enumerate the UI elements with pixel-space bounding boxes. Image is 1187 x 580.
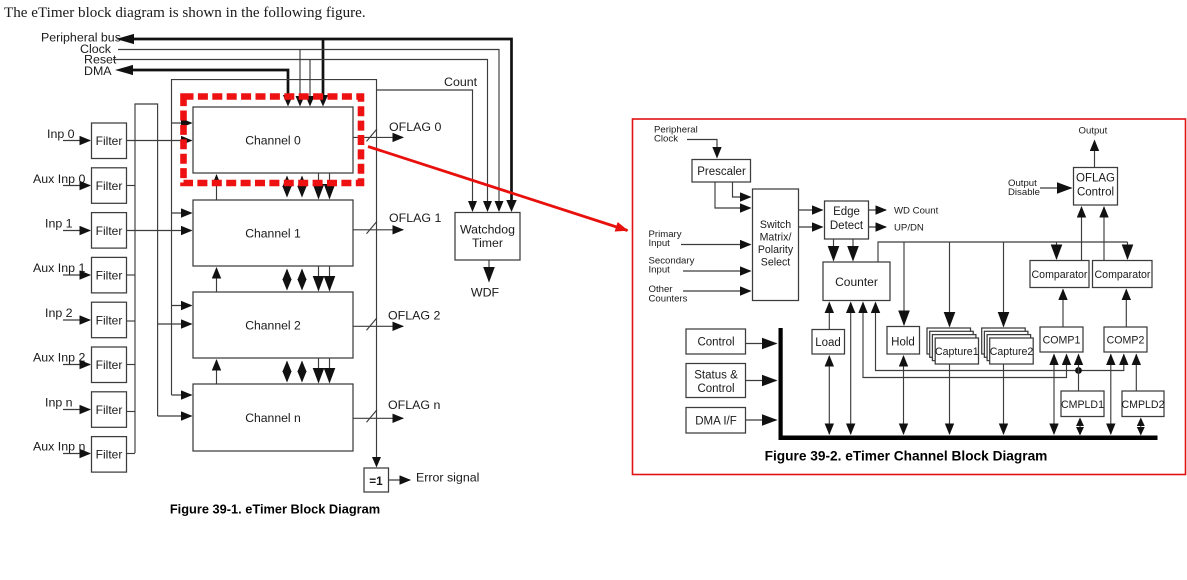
arrow Peripheral bus into Watchdog Timer bbox=[506, 200, 516, 212]
wire counter output line A (to COMP2/CMPLD1) bbox=[876, 304, 1124, 371]
svg-text:Switch: Switch bbox=[760, 219, 791, 231]
svg-text:Comparator: Comparator bbox=[1032, 269, 1088, 281]
svg-text:WDF: WDF bbox=[471, 286, 500, 300]
block Comparator 2 bbox=[1093, 261, 1153, 288]
wire CMPLD1 to bus bar (double) bbox=[1079, 419, 1081, 435]
wire Error signal output bbox=[389, 479, 411, 481]
wire Comparator1 to OFLAG Control bbox=[1081, 207, 1083, 261]
svg-text:Inp 2: Inp 2 bbox=[45, 306, 73, 320]
svg-text:Counters: Counters bbox=[649, 294, 688, 305]
wire filter F7 to bus bbox=[127, 411, 136, 413]
wire OFLAG n output bbox=[353, 417, 403, 419]
svg-text:Counter: Counter bbox=[835, 275, 878, 289]
svg-text:OFLAG: OFLAG bbox=[1076, 173, 1115, 185]
filter F7 bbox=[92, 392, 127, 428]
block Channel 2 bbox=[193, 292, 353, 358]
svg-text:Comparator: Comparator bbox=[1095, 269, 1151, 281]
svg-text:OFLAG 0: OFLAG 0 bbox=[389, 120, 441, 134]
svg-text:Channel 0: Channel 0 bbox=[245, 134, 301, 148]
wire Reset bbox=[113, 60, 488, 204]
wire filter F2 to bus bbox=[127, 185, 136, 187]
wire filter F8 to bus bbox=[127, 453, 136, 455]
block Hold bbox=[887, 327, 920, 355]
wire CMPLD2 to COMP2 bbox=[1135, 355, 1137, 392]
wire COMP2 to bus bar (double) bbox=[1110, 355, 1112, 435]
wire Reset branch into Channel 0 bbox=[309, 60, 311, 98]
svg-text:Figure 39-1. eTimer Block Diag: Figure 39-1. eTimer Block Diagram bbox=[170, 502, 380, 517]
svg-text:Matrix/: Matrix/ bbox=[760, 232, 792, 244]
wire Comparator2 to OFLAG Control bbox=[1103, 207, 1105, 261]
block Channel 0 bbox=[193, 107, 353, 173]
wire WD Count output bbox=[869, 209, 887, 211]
svg-text:Status &: Status & bbox=[694, 370, 738, 382]
wire counter output line B (to COMP1) bbox=[863, 304, 1067, 378]
capture stack Capture1 bbox=[927, 328, 971, 354]
block CMPLD1 bbox=[1061, 391, 1104, 417]
svg-text:Detect: Detect bbox=[830, 220, 864, 232]
wire Capture1 to bus bar bbox=[949, 364, 951, 434]
filter F5 bbox=[92, 302, 127, 338]
filter F8 bbox=[92, 437, 127, 473]
svg-text:Capture2: Capture2 bbox=[990, 346, 1034, 358]
block Channel 1 bbox=[193, 200, 353, 266]
filter F2 bbox=[92, 168, 127, 204]
wire Peripheral bus (thick, left arrowhead) bbox=[116, 34, 134, 44]
arrow loop into =1 box bbox=[372, 457, 381, 468]
wire Inp 0 into filter bbox=[63, 140, 90, 142]
wire Aux Inp 0 into filter bbox=[63, 185, 90, 187]
filter F4 bbox=[92, 257, 127, 293]
block Counter bbox=[823, 262, 890, 301]
svg-text:DMA I/F: DMA I/F bbox=[695, 416, 737, 428]
svg-text:Filter: Filter bbox=[96, 224, 123, 238]
svg-text:Edge: Edge bbox=[833, 206, 860, 218]
svg-text:Filter: Filter bbox=[96, 448, 123, 462]
wire COMP1 to bus bar (double) bbox=[1053, 355, 1055, 435]
red dashed highlight box around Channel 0 bbox=[184, 97, 362, 184]
svg-text:Disable: Disable bbox=[1008, 187, 1040, 198]
block CMPLD2 bbox=[1122, 391, 1164, 417]
svg-text:The eTimer block diagram is sh: The eTimer block diagram is shown in the… bbox=[4, 5, 366, 21]
svg-text:Input: Input bbox=[649, 265, 671, 276]
wire Other Counters into Switch Matrix bbox=[683, 290, 751, 292]
block COMP1 bbox=[1040, 327, 1083, 352]
wire OFLAG 1 output bbox=[353, 229, 403, 231]
svg-text:Capture1: Capture1 bbox=[935, 346, 979, 358]
block DMA I/F bbox=[686, 408, 746, 434]
svg-text:Aux Inp 0: Aux Inp 0 bbox=[33, 172, 85, 186]
svg-text:Control: Control bbox=[697, 383, 734, 395]
block Edge Detect bbox=[825, 201, 869, 239]
svg-text:Count: Count bbox=[444, 75, 478, 89]
wire bus to Channel 0 input 1 (from loop) bbox=[172, 122, 192, 124]
svg-text:Filter: Filter bbox=[96, 179, 123, 193]
svg-text:Figure 39-2. eTimer Channel Bl: Figure 39-2. eTimer Channel Block Diagra… bbox=[765, 449, 1048, 464]
svg-text:Load: Load bbox=[815, 337, 841, 349]
svg-text:OFLAG 2: OFLAG 2 bbox=[388, 309, 440, 323]
wire filter F5 to bus bbox=[127, 320, 136, 322]
wire Output Disable into OFLAG Control bbox=[1040, 187, 1072, 189]
svg-text:OFLAG 1: OFLAG 1 bbox=[389, 211, 441, 225]
wire feedback loop (top/left/right) bbox=[172, 80, 377, 459]
svg-text:Filter: Filter bbox=[96, 403, 123, 417]
wire Load to bus bar (double) bbox=[828, 356, 830, 434]
svg-text:Watchdog: Watchdog bbox=[460, 223, 515, 237]
arrows between Channel 1 and Channel 2 bbox=[216, 268, 218, 292]
wire Switch Matrix to Edge Detect 1 bbox=[799, 209, 823, 211]
svg-text:Filter: Filter bbox=[96, 134, 123, 148]
block Switch Matrix / Polarity Select bbox=[753, 189, 799, 301]
svg-text:Inp n: Inp n bbox=[45, 396, 73, 410]
svg-text:Timer: Timer bbox=[472, 236, 503, 250]
svg-text:Error signal: Error signal bbox=[416, 471, 479, 485]
svg-text:Channel 2: Channel 2 bbox=[245, 319, 301, 333]
wire Inp 1 into filter bbox=[63, 230, 90, 232]
red arrow from Channel 0 to Figure 39-2 bbox=[368, 147, 628, 231]
svg-text:Aux Inp 1: Aux Inp 1 bbox=[33, 261, 85, 275]
wire loop to Channel 2 input 1 bbox=[172, 305, 192, 307]
svg-text:Hold: Hold bbox=[891, 337, 915, 349]
svg-text:Clock: Clock bbox=[654, 134, 678, 145]
wire Edge Detect to Counter 2 bbox=[852, 239, 854, 261]
capture stack Capture2 bbox=[982, 328, 1025, 354]
svg-text:COMP2: COMP2 bbox=[1107, 335, 1145, 347]
wire Clock bbox=[118, 50, 499, 204]
wire WDF output bbox=[488, 260, 490, 282]
arrow into Hold top bbox=[903, 242, 905, 325]
red frame of Figure 39-2 bbox=[633, 119, 1186, 475]
wire Primary Input into Switch Matrix bbox=[681, 244, 751, 246]
wire DMA (thick, left arrowhead) bbox=[115, 65, 133, 75]
wire filter F1 to Channel 0 input 2 bbox=[127, 140, 192, 142]
svg-text:Channel 1: Channel 1 bbox=[245, 227, 301, 241]
wire Status & Control to bus bar bbox=[746, 380, 777, 382]
svg-text:DMA: DMA bbox=[84, 64, 112, 78]
wire Aux Inp 2 into filter bbox=[63, 364, 90, 366]
wire Prescaler output 2 into Switch Matrix bbox=[715, 182, 740, 208]
wire Aux Inp n into filter bbox=[63, 453, 90, 455]
block Control bbox=[686, 329, 746, 354]
wire Secondary Input into Switch Matrix bbox=[683, 270, 751, 272]
svg-text:CMPLD1: CMPLD1 bbox=[1061, 399, 1104, 411]
wire Output (from OFLAG Control) bbox=[1094, 141, 1096, 168]
node junction dot on line A bbox=[1075, 367, 1082, 374]
arrow into Capture2 top bbox=[1003, 242, 1005, 327]
wire filter F3 to Channel 1 input 2 bbox=[127, 230, 192, 232]
block Status & Control bbox=[686, 364, 746, 398]
wire Peripheral Clock into Prescaler bbox=[687, 140, 717, 146]
svg-text:Output: Output bbox=[1079, 126, 1108, 137]
svg-text:Inp 0: Inp 0 bbox=[47, 127, 75, 141]
wire DMA I/F to bus bar bbox=[746, 419, 777, 421]
wire bus to Channel n input 2 bbox=[158, 415, 192, 417]
arrows between Channel 2 and Channel n bbox=[216, 360, 218, 384]
svg-text:Polarity: Polarity bbox=[758, 244, 794, 256]
wire OFLAG 2 output bbox=[353, 325, 403, 327]
block Load bbox=[812, 330, 845, 355]
wire counter compare bus (top horizontal) bbox=[878, 242, 1128, 262]
wire Control to bus bar bbox=[746, 343, 777, 345]
svg-text:Prescaler: Prescaler bbox=[697, 166, 746, 178]
block Channel n bbox=[193, 384, 353, 451]
wire loop to Channel 1 input 1 bbox=[172, 212, 192, 214]
block OFLAG Control bbox=[1074, 168, 1118, 206]
wire bus to Channel 2 input 2 bbox=[158, 323, 192, 325]
node input bus bar bbox=[135, 104, 158, 453]
svg-text:=1: =1 bbox=[369, 474, 383, 488]
wire COMP1 to Comparator1 bbox=[1062, 290, 1064, 328]
wire Hold to bus bar (double) bbox=[903, 356, 905, 434]
wire UP/DN output bbox=[869, 226, 887, 228]
filter F1 bbox=[92, 123, 127, 159]
svg-text:Select: Select bbox=[761, 257, 790, 269]
wire Peripheral bus branch into Channel 0 bbox=[322, 40, 325, 96]
block Prescaler bbox=[692, 160, 751, 183]
wire loop to Channel n input 1 bbox=[172, 394, 192, 396]
block COMP2 bbox=[1104, 327, 1147, 352]
svg-text:UP/DN: UP/DN bbox=[894, 223, 924, 234]
block =1 (error OR gate) bbox=[364, 468, 389, 492]
filter F6 bbox=[92, 347, 127, 383]
svg-text:Inp 1: Inp 1 bbox=[45, 217, 73, 231]
svg-text:OFLAG n: OFLAG n bbox=[388, 398, 440, 412]
wire Prescaler output 1 into Switch Matrix bbox=[733, 182, 741, 197]
svg-text:Channel n: Channel n bbox=[245, 411, 301, 425]
svg-text:CMPLD2: CMPLD2 bbox=[1122, 399, 1165, 411]
svg-text:Filter: Filter bbox=[96, 269, 123, 283]
svg-text:Control: Control bbox=[1077, 187, 1114, 199]
wire CMPLD1 to COMP1 bbox=[1078, 355, 1080, 392]
svg-text:Input: Input bbox=[649, 238, 671, 249]
wire Capture2 to bus bar bbox=[1003, 364, 1005, 434]
arrow into Comparator 1 top bbox=[1056, 242, 1058, 259]
svg-text:WD Count: WD Count bbox=[894, 206, 939, 217]
svg-text:Aux Inp 2: Aux Inp 2 bbox=[33, 351, 85, 365]
wire COMP2 to Comparator2 bbox=[1125, 290, 1127, 328]
wire Switch Matrix to Edge Detect 2 bbox=[799, 226, 823, 228]
arrow into Capture1 top bbox=[949, 242, 951, 327]
wire Load to Counter bbox=[828, 303, 830, 330]
wire Inp n into filter bbox=[63, 409, 90, 411]
block Comparator 1 bbox=[1030, 261, 1089, 288]
svg-text:Filter: Filter bbox=[96, 358, 123, 372]
wire Inp 2 into filter bbox=[63, 319, 90, 321]
wire Clock branch into Channel 0 bbox=[299, 50, 301, 98]
svg-text:Control: Control bbox=[697, 337, 734, 349]
svg-text:Aux Inp n: Aux Inp n bbox=[33, 440, 85, 454]
wire filter F4 to bus bbox=[127, 274, 136, 276]
wire CMPLD2 to bus bar (double) bbox=[1140, 419, 1142, 435]
node register access bus bar (thick L) bbox=[779, 328, 783, 440]
arrow into Comparator 2 top bbox=[1127, 242, 1129, 259]
svg-text:COMP1: COMP1 bbox=[1043, 335, 1081, 347]
wire OFLAG 0 output bbox=[353, 136, 403, 138]
wire Counter to bus bar (double) bbox=[850, 303, 852, 435]
wire Aux Inp 1 into filter bbox=[63, 274, 90, 276]
wire Count bbox=[377, 90, 473, 203]
block Watchdog Timer bbox=[455, 213, 520, 261]
arrows between Channel 0 and Channel 1 bbox=[216, 175, 218, 200]
wire Edge Detect to Counter 1 bbox=[833, 239, 835, 261]
svg-text:Filter: Filter bbox=[96, 314, 123, 328]
wire filter F6 to bus bbox=[127, 364, 136, 366]
filter F3 bbox=[92, 213, 127, 249]
